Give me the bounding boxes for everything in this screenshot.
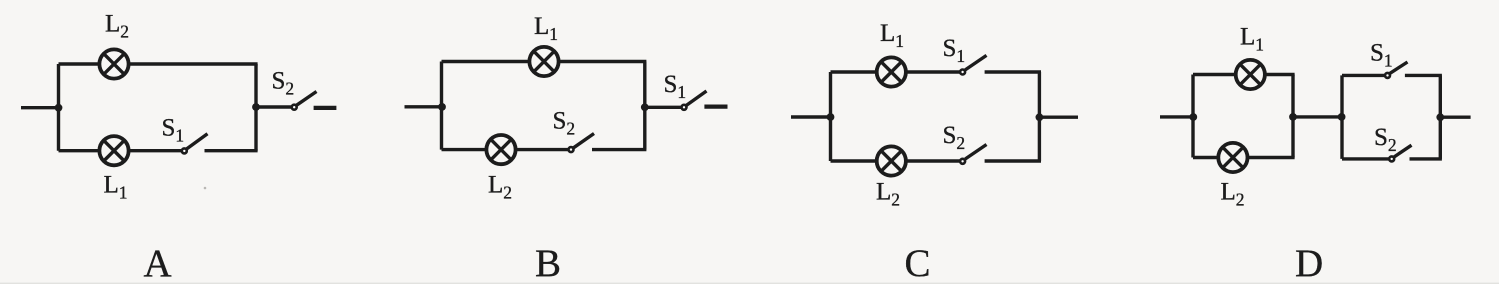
svg-text:C: C xyxy=(905,242,931,284)
svg-text:B: B xyxy=(535,242,561,284)
svg-text:D: D xyxy=(1295,242,1323,284)
svg-text:A: A xyxy=(144,242,172,284)
